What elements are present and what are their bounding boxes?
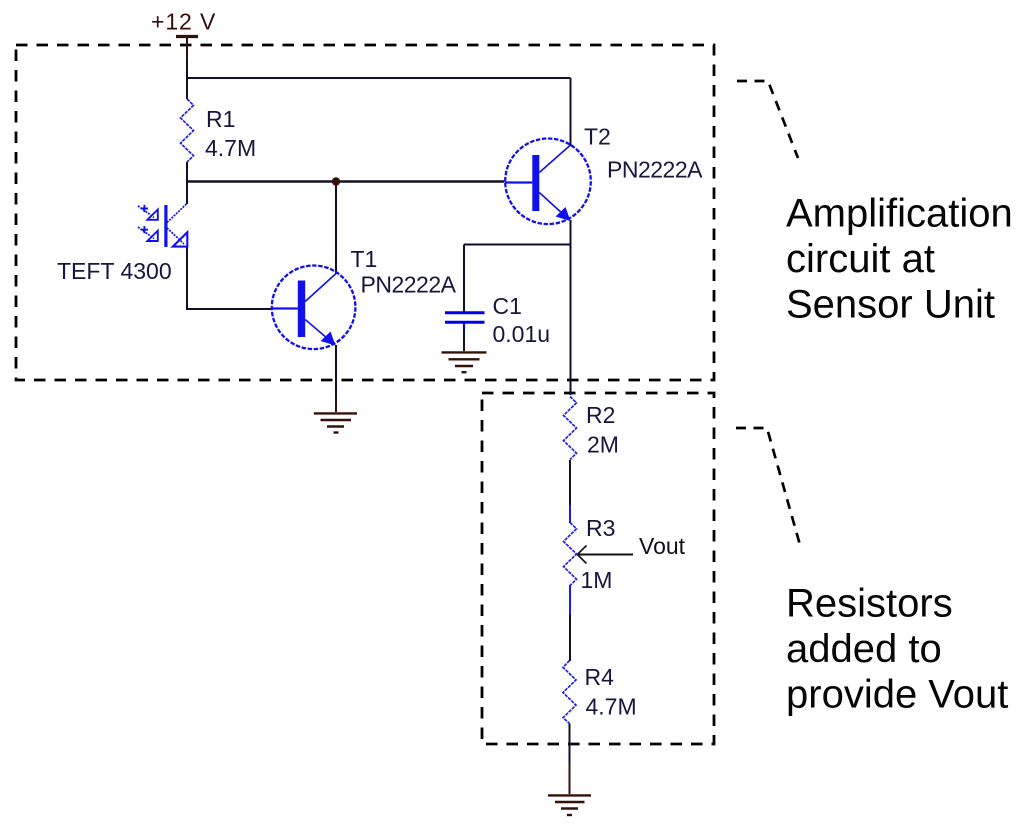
svg-text:2M: 2M	[587, 432, 619, 458]
svg-text:circuit at: circuit at	[786, 237, 935, 281]
svg-text:T2: T2	[584, 124, 611, 150]
svg-text:provide Vout: provide Vout	[786, 673, 1008, 717]
svg-text:PN2222A: PN2222A	[607, 157, 703, 183]
svg-text:TEFT 4300: TEFT 4300	[57, 258, 172, 284]
svg-text:1M: 1M	[581, 567, 613, 593]
svg-text:R1: R1	[206, 106, 235, 132]
svg-text:+12 V: +12 V	[151, 9, 216, 35]
svg-text:C1: C1	[493, 293, 522, 319]
svg-text:R4: R4	[585, 664, 615, 690]
svg-text:PN2222A: PN2222A	[361, 272, 457, 298]
svg-text:0.01u: 0.01u	[493, 321, 551, 347]
svg-text:T1: T1	[351, 246, 378, 272]
svg-text:R2: R2	[586, 402, 615, 428]
svg-text:Sensor Unit: Sensor Unit	[786, 283, 995, 327]
svg-text:added to: added to	[786, 627, 942, 671]
svg-text:Resistors: Resistors	[786, 582, 953, 626]
svg-text:4.7M: 4.7M	[205, 135, 256, 161]
svg-text:R3: R3	[586, 515, 615, 541]
svg-text:Amplification: Amplification	[786, 192, 1013, 236]
svg-text:4.7M: 4.7M	[586, 694, 637, 720]
svg-text:Vout: Vout	[639, 533, 686, 559]
